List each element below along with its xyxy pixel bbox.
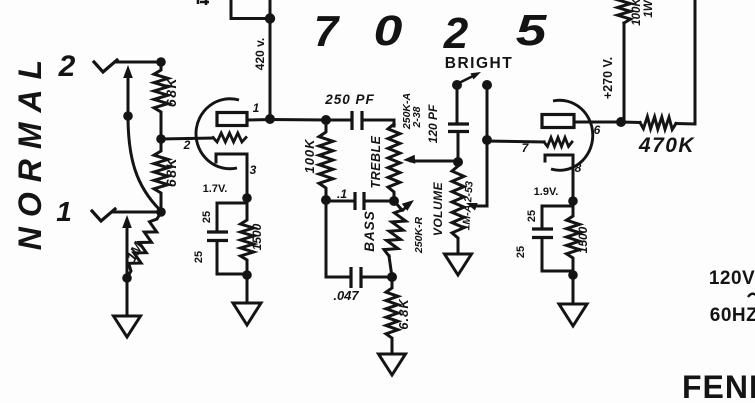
svg-text:6.8K: 6.8K [396,298,411,330]
jack J1 arm arrowhead [122,215,132,228]
svg-text:FENDER: FENDER [682,369,755,403]
node V1B cathode top [568,196,578,206]
triode V1A grid zigzag [213,133,246,142]
triode V1A plate box [217,113,247,126]
svg-text:+270 V.: +270 V. [601,57,615,99]
svg-text:1500: 1500 [250,223,264,250]
wire B+ feed top-left [231,0,270,19]
svg-text:2: 2 [183,138,191,152]
capacitor 120pF plates [448,124,469,132]
svg-text:1500: 1500 [576,226,590,253]
wire .047 to bass bottom node [361,276,392,279]
node V1B cathode bottom [568,270,578,280]
svg-text:BRIGHT: BRIGHT [445,55,513,72]
ground G4 volume [445,254,472,275]
node V1A cathode bottom [242,270,252,280]
svg-text:1.9V.: 1.9V. [534,186,559,198]
triode V1A cathode [216,154,247,198]
wire 100K node to .1 cap [326,200,355,203]
capacitor 25uF V1A plates [207,232,228,241]
wire V1B cathode left branch top [542,206,573,229]
triode V1A envelope [196,99,239,169]
potentiometer VOLUME 1M-A [452,162,464,254]
potentiometer BASS lead bottom [389,256,392,277]
bright switch terminal left [452,80,462,90]
svg-text:VOLUME: VOLUME [431,181,445,236]
node J1 resistor junction [122,273,132,283]
svg-text:.1: .1 [337,187,347,201]
svg-text:250K-R: 250K-R [413,216,425,254]
svg-text:2-38: 2-38 [411,106,423,128]
resistor 100K 1W partial [618,0,631,23]
resistor 1500 V1B [567,201,580,275]
svg-text:25: 25 [201,211,213,223]
wire node to 250pF [326,119,352,122]
wire volume wiper up to grid tee [486,140,489,206]
treble wiper arrowhead [403,155,415,164]
triode V1B grid zigzag [544,138,572,147]
wire to ground G1 [126,278,129,316]
input jack J1 tip contact [92,209,115,221]
wire cathode left branch top [217,203,247,232]
wire V1B plate up to supply [623,23,626,122]
bass wiper arrow [402,204,409,211]
node V1A cathode top [242,193,252,203]
node bass bottom [387,272,397,282]
capacitor 25uF V1B plates [532,229,553,238]
svg-text:100K: 100K [631,0,643,26]
svg-text:250 PF: 250 PF [324,92,375,107]
node V1A plate [265,114,275,124]
resistor 6.8K [386,277,398,354]
node grid V1A [156,134,166,144]
svg-text:0: 0 [374,7,403,55]
potentiometer BASS 250K zigzag [384,210,406,256]
node V1B grid tee [482,135,492,145]
resistor 470K [640,117,676,130]
wire V1B plate lead [574,121,621,124]
wire .1 cap to treble bottom [364,200,394,203]
svg-text:7: 7 [314,7,341,56]
ground G2 V1A cathode [233,303,261,325]
capacitor .1 plates [355,192,364,210]
triode V1B cathode [545,155,573,201]
svg-text:.047: .047 [333,288,359,303]
wire down from 100K node [326,200,351,277]
svg-text:1: 1 [253,101,260,115]
svg-text:68K: 68K [163,157,179,187]
jack J2 ground-switch arm [127,72,130,116]
svg-text:TREBLE: TREBLE [369,135,383,188]
svg-text:NORMAL: NORMAL [12,50,48,250]
svg-text:8: 8 [575,161,582,175]
volume wiper line [473,205,487,208]
wire V1A plate to tone node [270,118,326,122]
bright switch arm [459,75,476,84]
jack J1 ground-switch arm [126,222,129,278]
triode V1B envelope [551,100,593,170]
svg-text:60HZ: 60HZ [710,305,755,326]
svg-text:100K: 100K [302,138,317,174]
node J2 switch junction [123,111,133,121]
jack J2 arm arrowhead [123,65,133,78]
node treble bottom [389,196,399,206]
resistor 1500 V1A [241,198,254,275]
svg-text:420 v.: 420 v. [253,38,267,70]
node volume top [453,157,463,167]
wire grid tee to V1B grid [487,141,544,142]
svg-text:1.7V.: 1.7V. [203,183,228,195]
wire plate node to 470K [621,121,640,125]
ground G1 input jacks [114,316,141,337]
node jack1 tip [156,207,166,217]
node B+ junction [265,13,275,23]
ground G3 tone stack [379,354,406,375]
svg-text:470K: 470K [638,134,696,157]
svg-text:120V: 120V [709,268,755,289]
volume wiper arrowhead [466,203,478,211]
svg-text:1: 1 [56,196,72,227]
input jack J2 tip contact [94,60,117,72]
wire bright left down [456,85,459,124]
potentiometer TREBLE 250K-A [388,124,400,201]
svg-text:25: 25 [515,246,527,258]
wire 120pF to volume top [457,132,460,163]
wire to ground G5 [572,275,575,304]
svg-text:25: 25 [526,210,538,222]
capacitor .047 plates [351,267,361,288]
svg-text:25: 25 [193,251,205,263]
svg-text:68K: 68K [163,77,179,107]
capacitor 250pF plates [352,111,362,130]
wire J1 tip to node [113,211,161,214]
wire bright right down [486,85,489,140]
svg-text:1W: 1W [643,0,655,18]
bright switch terminal right [482,80,492,90]
resistor 1M [127,212,161,278]
cut-off label fragment top-left [198,0,209,5]
wire B+ down to plate node [269,0,272,119]
svg-text:BASS: BASS [362,210,377,252]
wire 470K to coupling line up [676,0,695,124]
ground G5 V1B cathode [559,304,587,326]
svg-text:120 PF: 120 PF [426,104,440,143]
node jack2 tip [156,57,166,67]
resistor 68K lower [154,139,168,212]
potentiometer BASS 250K lead top [394,201,402,210]
wire V1B cathode left branch bottom [542,238,573,272]
node 100K bottom [321,195,331,205]
wire V1A plate lead [247,118,270,122]
svg-text:3: 3 [250,163,257,177]
wire J2 tip to node [115,61,161,64]
wire grid V1A [161,138,213,139]
svg-text:2: 2 [58,50,76,83]
wire to ground G2 [246,275,249,303]
triode V1B plate box [542,115,574,128]
node V1B plate [616,117,626,127]
AC symbol fragment [748,294,755,297]
svg-text:5: 5 [516,5,548,54]
wire arc J2 switch to J1 tip [128,116,160,210]
treble wiper line [411,160,457,163]
node tone stack input [321,115,331,125]
resistor 68K upper [154,62,168,139]
wire cathode left branch bottom [217,241,247,275]
svg-text:2: 2 [443,9,469,58]
svg-text:6: 6 [594,123,601,137]
resistor 100K slope [319,120,333,200]
wire 250pF to treble top [362,120,394,126]
